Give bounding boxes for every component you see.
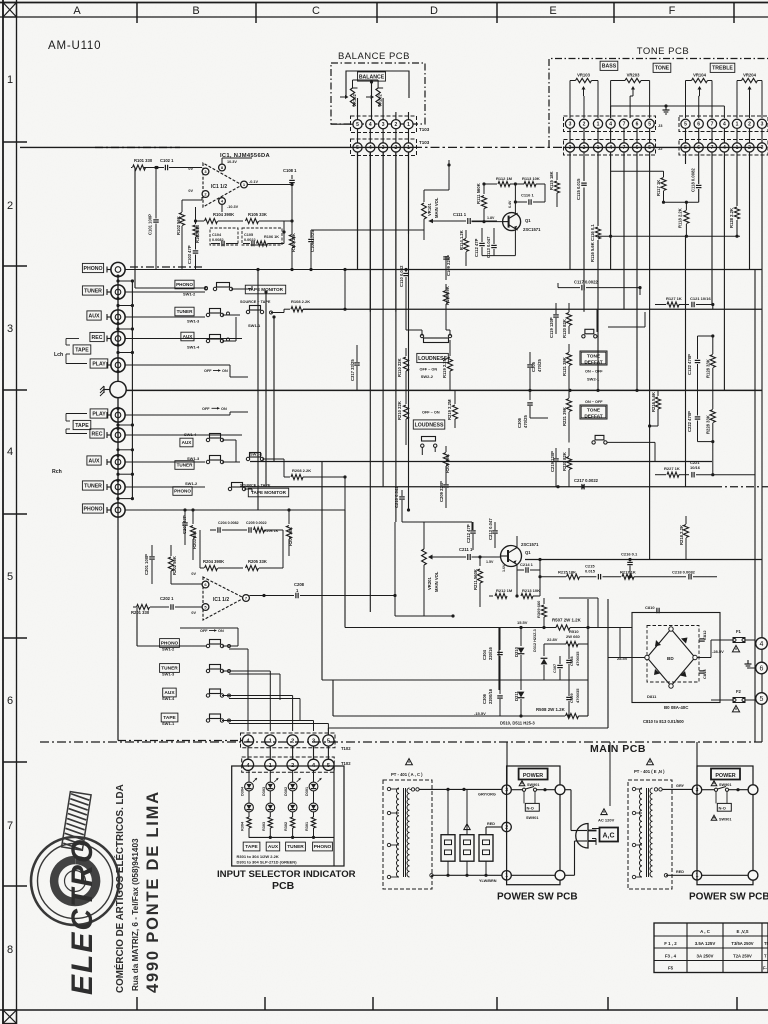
- top rail y184: [484, 183, 497, 185]
- svg-text:Rua da MATRIZ, 6 - Tel/Fax: Rua da MATRIZ, 6 - Tel/Fax (058)941403: [131, 838, 140, 991]
- selector bus verticals L: [257, 270, 259, 511]
- svg-text:R212 1M: R212 1M: [496, 588, 513, 593]
- svg-text:0V: 0V: [191, 611, 196, 615]
- wire input node down: [134, 168, 136, 289]
- label TAPE R boxed: [73, 420, 91, 429]
- svg-text:PLAY: PLAY: [92, 361, 106, 367]
- svg-text:470/25: 470/25: [523, 415, 528, 428]
- svg-text:R217 1K: R217 1K: [620, 570, 636, 575]
- border frame outer line left: [2, 0, 4, 1024]
- svg-text:1: 1: [597, 145, 600, 151]
- op-amp IC1b output pin 7: [243, 595, 250, 602]
- switch SW1-4 R: [206, 438, 209, 441]
- svg-text:BALANCE PCB: BALANCE PCB: [338, 51, 410, 62]
- svg-text:7: 7: [7, 820, 13, 832]
- svg-text:0V: 0V: [188, 189, 193, 193]
- svg-text:SW1-1: SW1-1: [162, 721, 175, 726]
- indicator PCB inner right edge: [333, 766, 335, 866]
- svg-text:TUNER: TUNER: [84, 288, 102, 294]
- outlet socket A: [441, 835, 455, 862]
- corner cross box top-left: [3, 3, 17, 18]
- LED D301 lower: [313, 791, 315, 803]
- svg-text:AUX: AUX: [182, 440, 193, 445]
- svg-text:J3: J3: [658, 123, 663, 128]
- svg-text:C204 0.0082: C204 0.0082: [218, 521, 239, 525]
- balance inner wiring box: [346, 71, 409, 98]
- resistor R117 1K: [611, 170, 664, 172]
- switch SW1-2 L: [213, 287, 216, 290]
- wire selector bus x238: [180, 627, 238, 629]
- svg-text:1: 1: [736, 122, 739, 128]
- wire drop x570: [569, 152, 571, 270]
- op-amp IC1a pin 4: [219, 198, 226, 205]
- svg-text:R301: R301: [305, 822, 309, 831]
- wires selector to connector: [222, 645, 238, 647]
- terminal big circle top left psw: [555, 785, 565, 795]
- svg-text:3: 3: [569, 122, 572, 128]
- warning triangle AC: [601, 809, 607, 815]
- wire REC R right: [125, 434, 242, 436]
- svg-text:5: 5: [356, 122, 359, 128]
- svg-text:D301 to 304 SLP-271D (GREEN): D301 to 304 SLP-271D (GREEN): [237, 859, 298, 864]
- wire drop x584 with C115: [583, 152, 585, 181]
- svg-text:R117 1K: R117 1K: [656, 180, 661, 196]
- svg-text:6: 6: [636, 122, 639, 128]
- wires between T103 rows: [357, 129, 359, 143]
- wire pin8 supply: [221, 158, 223, 164]
- label TUNER R boxed: [82, 481, 103, 490]
- wire VR102 pin column: [395, 112, 397, 120]
- svg-text:3: 3: [569, 145, 572, 151]
- svg-text:IC1 1/2: IC1 1/2: [213, 597, 229, 603]
- junction dots trunks: [290, 268, 293, 271]
- svg-text:R105 33K: R105 33K: [248, 212, 267, 217]
- svg-text:4: 4: [369, 122, 372, 128]
- svg-text:2: 2: [7, 200, 13, 212]
- svg-text:R302: R302: [284, 822, 288, 831]
- label TUNER switch R: [175, 461, 194, 470]
- svg-text:COMÉRCIO DE ARTIGOS ELÉCTRICOS: COMÉRCIO DE ARTIGOS ELÉCTRICOS. LDA: [114, 784, 126, 993]
- svg-text:5: 5: [648, 145, 651, 151]
- svg-text:C217 0.0022: C217 0.0022: [574, 478, 599, 483]
- svg-text:6.4V: 6.4V: [508, 200, 512, 208]
- svg-text:TAPE: TAPE: [245, 844, 258, 850]
- border frame bottom line: [0, 1009, 768, 1011]
- potentiometer VR202: [382, 98, 384, 112]
- switch SW1-3 R: [206, 460, 209, 463]
- wire PLAY R right: [125, 414, 230, 416]
- svg-text:R110 22K: R110 22K: [397, 358, 402, 377]
- label TREBLE boxed: [710, 63, 735, 72]
- column tick marks top: [136, 3, 138, 24]
- svg-text:R101 330: R101 330: [134, 158, 153, 163]
- svg-text:-15.5V: -15.5V: [474, 711, 486, 716]
- warning triangle SW901 right: [711, 781, 717, 786]
- svg-text:R309 660: R309 660: [536, 600, 541, 618]
- svg-text:C104: C104: [212, 233, 222, 237]
- input jack PHONO L: [111, 262, 125, 276]
- svg-text:Lch: Lch: [54, 352, 63, 358]
- corner cross box bottom-left: [3, 1010, 17, 1024]
- svg-text:1.8V: 1.8V: [487, 216, 495, 220]
- svg-text:C211 1: C211 1: [459, 547, 473, 552]
- svg-text:28.5V: 28.5V: [617, 656, 628, 661]
- wire left edge balance to pin5: [331, 123, 353, 125]
- svg-text:D: D: [430, 5, 438, 17]
- svg-text:-28.5V: -28.5V: [712, 649, 724, 654]
- label TAPE indicator boxed: [243, 842, 260, 851]
- svg-text:T103: T103: [419, 140, 430, 145]
- switch SW1-1 L: [246, 310, 249, 313]
- svg-text:C307: C307: [553, 664, 557, 673]
- svg-text:AUX: AUX: [89, 458, 100, 464]
- op-amp IC1b triangle: [203, 577, 244, 620]
- svg-text:SOURCE ~ TAPE: SOURCE ~ TAPE: [240, 300, 271, 304]
- svg-text:8: 8: [7, 944, 13, 956]
- wire right psw drop: [696, 742, 698, 785]
- svg-text:5: 5: [648, 122, 651, 128]
- wire trunk y487: [240, 486, 714, 488]
- svg-text:RED: RED: [676, 870, 684, 874]
- wire R102 top to pin2: [182, 199, 202, 201]
- pin circle 1 left psw: [502, 871, 511, 880]
- svg-text:OFF ~ ON: OFF ~ ON: [422, 411, 440, 415]
- wire trunk y462: [250, 461, 712, 463]
- svg-text:3: 3: [7, 323, 13, 335]
- wire drop x637: [636, 152, 638, 390]
- input jack AUX R: [111, 455, 125, 469]
- input jack TUNER L: [111, 285, 125, 299]
- wire pin4 supply: [221, 204, 223, 212]
- svg-text:1: 1: [7, 74, 13, 86]
- svg-text:OFF: OFF: [204, 369, 212, 373]
- label PLAY R boxed: [90, 409, 108, 418]
- loudness switch R: [422, 437, 436, 442]
- wire indicator column D304: [248, 770, 250, 782]
- switch SW1-2 bottom: [206, 644, 209, 647]
- label AUX R boxed: [87, 456, 101, 465]
- wires VR104 to pins: [686, 80, 692, 82]
- svg-text:Q1: Q1: [525, 550, 531, 555]
- svg-text:7: 7: [711, 122, 714, 128]
- wire plug to psw: [592, 828, 599, 830]
- svg-text:TAPE: TAPE: [75, 423, 89, 429]
- border frame outer line top: [0, 2, 768, 4]
- wire C317 from tape play: [356, 345, 358, 352]
- svg-text:5: 5: [356, 145, 359, 151]
- svg-text:C205 0.0022: C205 0.0022: [246, 521, 267, 525]
- connector J2 dashed box right: [679, 140, 768, 156]
- svg-text:R201 330: R201 330: [131, 610, 150, 615]
- svg-text:2: 2: [748, 122, 751, 128]
- svg-text:R204 390K: R204 390K: [203, 559, 224, 564]
- wire IC1b out: [249, 595, 294, 597]
- bottom rail y255: [482, 255, 515, 257]
- wire x685 to y486 partial: [685, 236, 687, 487]
- svg-text:D303: D303: [262, 787, 266, 796]
- svg-text:D302: D302: [284, 787, 288, 796]
- svg-text:A,C: A,C: [603, 833, 615, 840]
- svg-text:R128 33K: R128 33K: [706, 359, 711, 378]
- svg-text:A , C: A , C: [700, 929, 711, 934]
- wire C108 net to volume: [311, 229, 424, 231]
- border frame inner line left: [16, 0, 18, 1024]
- transformer T901 secondary taps: [411, 788, 414, 791]
- LED D303 upper: [266, 782, 275, 791]
- svg-text:C108 1: C108 1: [283, 168, 297, 173]
- bridge rectifier diamond BD: [647, 629, 695, 686]
- wire PHONO L right: [125, 269, 345, 271]
- svg-text:4: 4: [369, 145, 372, 151]
- svg-text:VR203: VR203: [627, 73, 640, 78]
- svg-text:R119 2.2M: R119 2.2M: [442, 357, 447, 378]
- wire Q1 collector up: [514, 184, 516, 213]
- svg-text:22.8V: 22.8V: [547, 637, 558, 642]
- dash-dot overlay left trunk: [95, 146, 180, 148]
- switch SW901 N-O box right: [717, 803, 731, 811]
- wire pin3 inside box right: [702, 789, 715, 791]
- terminal big circle bottom right psw: [748, 870, 758, 880]
- wire R101 junction down: [155, 168, 157, 206]
- svg-text:VR204: VR204: [743, 73, 756, 78]
- svg-text:2: 2: [395, 145, 398, 151]
- svg-text:C119 120P: C119 120P: [549, 317, 554, 338]
- op-amp IC1b pin 6: [202, 581, 209, 588]
- svg-text:D811: D811: [647, 694, 657, 699]
- ground bus x132: [131, 281, 133, 499]
- svg-text:ON ~ OFF: ON ~ OFF: [585, 370, 603, 374]
- svg-text:AC 120V: AC 120V: [598, 818, 615, 823]
- svg-text:C222 470P: C222 470P: [687, 411, 692, 432]
- resistor R301: [313, 812, 315, 817]
- wire right edge drop: [761, 152, 763, 742]
- connector T102 row1 pins: [242, 735, 253, 746]
- svg-text:AUX: AUX: [183, 334, 194, 339]
- svg-text:T5: T5: [764, 941, 768, 946]
- input jack PHONO R: [111, 503, 125, 517]
- wires VR103 to pins: [570, 80, 576, 82]
- balance PCB dash-dot outline: [331, 63, 425, 124]
- svg-text:C201 100P: C201 100P: [144, 554, 149, 575]
- label POWER boxed right: [711, 769, 740, 780]
- dashed box C105: [242, 228, 282, 245]
- svg-text:TAPE MONITOR: TAPE MONITOR: [251, 490, 286, 495]
- wire rail corner x545: [544, 184, 546, 202]
- loudness switch L: [420, 334, 423, 337]
- svg-text:SW1-4: SW1-4: [184, 432, 197, 437]
- svg-text:6: 6: [7, 695, 13, 707]
- svg-text:4: 4: [609, 145, 612, 151]
- wire indicator column D302: [292, 770, 294, 782]
- svg-text:3: 3: [761, 122, 764, 128]
- svg-text:C317 33/25: C317 33/25: [350, 359, 355, 381]
- svg-text:SW2-2: SW2-2: [421, 374, 434, 379]
- wire volume R left side: [394, 522, 396, 616]
- wires switch outputs L: [231, 288, 252, 290]
- svg-text:4990 PONTE DE LIMA: 4990 PONTE DE LIMA: [144, 790, 162, 993]
- svg-text:R213 10K: R213 10K: [522, 588, 540, 593]
- wire pot top rail: [352, 80, 354, 88]
- connector T102 row2 dashed box: [242, 757, 335, 772]
- svg-text:TUNER: TUNER: [287, 844, 304, 850]
- wires VR204 to pins: [737, 80, 742, 82]
- jack bus dots: [116, 275, 119, 278]
- switch SW1-1 R: [246, 457, 249, 460]
- svg-text:1: 1: [407, 145, 410, 151]
- power sw pcb outline box right: [697, 766, 753, 885]
- transformer T902 dashed box: [628, 780, 672, 889]
- power box outline right edge: [607, 599, 609, 728]
- connector T103 row 2 pins 5-1: [353, 143, 362, 152]
- switch SW1-4 bottom: [206, 694, 209, 697]
- wire y236 rail: [598, 235, 740, 237]
- svg-text:3.5A 125V: 3.5A 125V: [695, 941, 716, 946]
- svg-text:C210 0.042: C210 0.042: [394, 486, 399, 508]
- svg-text:ON ~ OFF: ON ~ OFF: [585, 400, 603, 404]
- svg-text:RED: RED: [487, 822, 495, 826]
- svg-text:4: 4: [609, 122, 612, 128]
- wire C306 step: [530, 417, 548, 419]
- wire loudness L contacts: [405, 295, 407, 330]
- svg-text:1.6V: 1.6V: [502, 564, 506, 572]
- transformer T901 dashed box: [383, 780, 432, 889]
- svg-text:C103 47P: C103 47P: [187, 245, 192, 264]
- wire output to C108: [247, 184, 292, 186]
- wire trunk y560: [525, 559, 762, 561]
- transformer T901 windings: [396, 788, 399, 877]
- op-amp IC1b pin 5: [202, 604, 209, 611]
- connector J2 pins: [565, 143, 574, 152]
- label PHONO selector boxed: [160, 639, 180, 648]
- svg-text:D510, D511 H25-3: D510, D511 H25-3: [500, 721, 535, 726]
- transformer T901 primary taps: [387, 787, 390, 790]
- ground symbol chassis: [104, 389, 110, 391]
- tone ground symbol: [665, 106, 667, 110]
- svg-text:VR102: VR102: [352, 94, 357, 107]
- column tick marks bottom: [136, 997, 138, 1010]
- svg-text:C115 0.015: C115 0.015: [576, 178, 581, 200]
- svg-text:T3/5A 250V: T3/5A 250V: [731, 941, 753, 946]
- switch SW901 N-O box left: [525, 803, 539, 811]
- svg-text:R221 39K: R221 39K: [562, 407, 567, 426]
- wire loudness R links: [405, 390, 407, 398]
- label REC R boxed: [90, 429, 104, 438]
- wire Q2 emitter up: [516, 536, 518, 548]
- svg-text:4: 4: [7, 446, 13, 458]
- dash-dot overlay trunk left: [130, 266, 205, 268]
- LED D304 upper: [245, 782, 254, 791]
- svg-text:D304: D304: [241, 786, 245, 796]
- wire drop x685: [685, 152, 687, 164]
- wire indicator column D303: [269, 770, 271, 782]
- warning triangle outlets: [464, 824, 470, 830]
- svg-text:C813: C813: [702, 669, 707, 679]
- svg-text:AUX: AUX: [268, 844, 279, 850]
- jack bus vertical: [117, 276, 119, 381]
- svg-text:SW1-2: SW1-2: [185, 481, 198, 486]
- svg-text:2: 2: [583, 122, 586, 128]
- terminal circle 5: [756, 693, 768, 705]
- svg-text:IC1 1/2: IC1 1/2: [211, 184, 227, 190]
- wire trunk y390 Rch: [126, 389, 762, 391]
- svg-text:C109 220P: C109 220P: [446, 255, 451, 276]
- svg-text:F: F: [669, 5, 676, 17]
- ground terminal circle: [110, 381, 126, 397]
- wire C222 bottom bracket: [698, 441, 713, 443]
- wire pin1 inside box right: [702, 874, 748, 876]
- wire x333 link: [332, 680, 334, 716]
- wire rch feedback: [199, 530, 201, 568]
- wire RED pin2 to outlet3: [486, 826, 502, 828]
- switch SW901 contacts right: [714, 788, 717, 791]
- svg-text:SW1-2: SW1-2: [162, 647, 175, 652]
- svg-text:BASS: BASS: [602, 64, 617, 70]
- op-amp IC1a triangle: [203, 163, 242, 207]
- bracket TAPE L: [66, 344, 70, 346]
- bridge diode bottom-left: [654, 669, 660, 675]
- svg-text:R208 2.2K: R208 2.2K: [292, 468, 311, 473]
- label TAPE L boxed: [73, 345, 91, 354]
- LED D304 lower: [248, 791, 250, 803]
- label PHONO indicator boxed: [313, 842, 333, 851]
- resistor R302: [292, 812, 294, 817]
- outlet socket C: [479, 835, 493, 862]
- wire big circle to plug top: [565, 789, 571, 791]
- svg-text:MAIN VOL: MAIN VOL: [434, 571, 439, 592]
- connector T102 row2 pins: [242, 759, 253, 770]
- row tick marks left: [3, 141, 27, 143]
- svg-text:POWER: POWER: [523, 773, 543, 779]
- op-amp IC1a pin 8: [219, 164, 226, 171]
- label AUX switch L: [181, 332, 194, 341]
- wire off-on L link: [229, 365, 231, 377]
- connector J2 dashed box left: [564, 140, 656, 156]
- svg-text:TUNER: TUNER: [177, 463, 194, 468]
- svg-text:R301 to 304 1/2W 2.2K: R301 to 304 1/2W 2.2K: [237, 854, 279, 859]
- svg-text:PHONO: PHONO: [83, 266, 102, 272]
- connector J3 dashed box left: [564, 116, 656, 132]
- svg-text:C121 10/16: C121 10/16: [690, 296, 711, 301]
- wire drop x724: [723, 152, 725, 390]
- connector T103 row 2 dashed box: [351, 139, 417, 156]
- bridge diode top-right: [681, 638, 688, 644]
- svg-text:3: 3: [382, 122, 385, 128]
- stamp banner hatched: [62, 792, 92, 851]
- svg-text:OFF ~ ON: OFF ~ ON: [420, 368, 438, 372]
- svg-text:ON: ON: [222, 369, 228, 373]
- wire y202 link: [664, 201, 699, 203]
- warning triangle under right: [711, 815, 717, 820]
- wire drop x598 with R116: [597, 152, 599, 226]
- wire trunk y598 partial: [559, 597, 598, 599]
- switch SW1-3 bottom: [206, 669, 209, 672]
- svg-text:220/16: 220/16: [488, 647, 493, 660]
- svg-text:VR104: VR104: [693, 73, 706, 78]
- label BALANCE boxed: [358, 72, 386, 81]
- LED D302 upper: [288, 782, 297, 791]
- svg-text:POWER SW PCB: POWER SW PCB: [497, 892, 578, 903]
- label AUX indicator boxed: [266, 842, 280, 851]
- svg-text:VR101: VR101: [427, 203, 432, 216]
- indicator PCB outline box: [232, 766, 344, 866]
- op-amp IC1a pin 3: [202, 168, 209, 175]
- svg-text:C209 220P: C209 220P: [439, 481, 444, 502]
- svg-text:5: 5: [684, 145, 687, 151]
- wire drop x624: [623, 152, 625, 309]
- transformer T902 primary taps: [632, 787, 635, 790]
- stamp ring outer: [31, 837, 119, 925]
- svg-text:1.5V: 1.5V: [486, 560, 494, 564]
